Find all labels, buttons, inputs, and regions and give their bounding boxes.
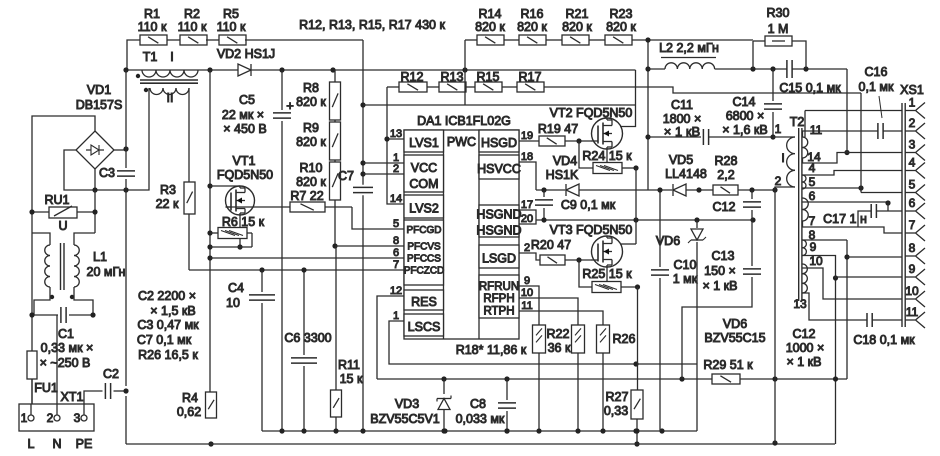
svg-text:FU1: FU1 [34,381,58,395]
svg-text:C17 1 н: C17 1 н [823,212,867,226]
svg-text:C12: C12 [713,200,736,214]
svg-text:BZV55C5V1: BZV55C5V1 [370,412,440,426]
svg-text:× 1,6 кВ: × 1,6 кВ [722,123,767,137]
svg-text:+: + [286,98,294,113]
svg-text:C9 0,1 мк: C9 0,1 мк [561,198,616,212]
svg-text:C3: C3 [99,166,115,180]
svg-text:R1: R1 [144,7,160,21]
svg-text:12: 12 [390,285,402,297]
svg-text:18: 18 [521,151,533,163]
svg-text:C1: C1 [58,327,74,341]
svg-text:R20 47: R20 47 [531,238,571,252]
svg-text:R27: R27 [606,390,629,404]
svg-text:5: 5 [809,175,816,189]
svg-text:R7 22: R7 22 [290,189,323,203]
svg-text:9: 9 [810,240,817,254]
svg-text:R14: R14 [479,7,502,21]
svg-text:T1: T1 [143,50,158,64]
svg-text:R3: R3 [160,183,176,197]
svg-text:I: I [170,50,173,64]
svg-text:2,2: 2,2 [717,168,734,182]
svg-text:20 мГн: 20 мГн [87,265,126,279]
svg-text:2: 2 [393,163,399,175]
svg-text:4: 4 [909,156,916,170]
svg-text:R16: R16 [521,7,544,21]
svg-text:1: 1 [909,96,916,110]
svg-text:R17: R17 [519,70,542,84]
svg-text:C15 0,1 мк: C15 0,1 мк [779,81,841,95]
svg-text:HSGND: HSGND [476,208,521,222]
svg-text:R24 15 к: R24 15 к [582,149,632,163]
svg-text:PWC: PWC [447,135,476,149]
svg-text:LSCS: LSCS [408,320,441,334]
svg-text:HSGD: HSGD [481,136,517,150]
svg-text:R30: R30 [767,6,790,20]
svg-text:0,62: 0,62 [177,405,201,419]
svg-text:C14: C14 [733,95,756,109]
svg-text:R11: R11 [338,358,360,372]
svg-text:R25 15 к: R25 15 к [582,267,632,281]
svg-text:C2: C2 [103,367,119,381]
svg-text:COM: COM [409,177,438,191]
svg-text:19: 19 [521,130,533,142]
svg-text:11: 11 [810,123,823,137]
svg-text:VCC: VCC [411,161,437,175]
svg-text:7: 7 [393,259,399,271]
svg-text:15 к: 15 к [340,372,363,386]
svg-text:C8: C8 [470,397,486,411]
svg-text:C6 3300: C6 3300 [284,331,331,345]
svg-text:II: II [167,91,174,105]
svg-text:C7 0,1 мк: C7 0,1 мк [137,333,192,347]
svg-text:C13: C13 [712,249,735,263]
svg-text:13: 13 [390,128,402,140]
svg-text:1: 1 [393,310,399,322]
svg-text:110 к: 110 к [138,20,167,34]
svg-text:10: 10 [905,284,919,298]
svg-text:820 к: 820 к [562,20,592,34]
svg-text:C10: C10 [674,258,697,272]
svg-text:820 к: 820 к [606,20,636,34]
svg-text:5: 5 [909,178,916,192]
svg-text:VD2 HS1J: VD2 HS1J [217,47,275,61]
svg-text:0,1 мк: 0,1 мк [859,80,894,94]
svg-text:2: 2 [909,116,916,130]
svg-text:7: 7 [909,218,916,232]
svg-text:6: 6 [909,196,916,210]
svg-text:PFCVS: PFCVS [407,242,441,253]
svg-text:R4: R4 [182,391,198,405]
svg-text:PFCGD: PFCGD [407,225,442,236]
svg-text:VT1: VT1 [233,154,256,168]
svg-text:2: 2 [524,242,530,254]
svg-text:HS1K: HS1K [546,168,579,182]
svg-text:C2 2200 ×: C2 2200 × [138,289,196,303]
svg-text:110 к: 110 к [178,20,207,34]
svg-text:C16: C16 [865,65,888,79]
svg-text:8: 8 [909,241,916,255]
svg-text:L1: L1 [93,250,107,264]
svg-text:VT2 FQD5N50: VT2 FQD5N50 [550,106,633,120]
svg-text:2: 2 [775,174,782,188]
svg-text:820 к: 820 к [296,175,326,189]
svg-text:R15: R15 [477,70,500,84]
svg-text:VD3: VD3 [395,397,419,411]
svg-text:2: 2 [47,411,54,425]
svg-text:LVS1: LVS1 [409,136,439,150]
svg-text:0,33 мк ×: 0,33 мк × [41,341,94,355]
svg-text:6800 ×: 6800 × [726,109,765,123]
svg-text:FQD5N50: FQD5N50 [217,168,273,182]
svg-text:1000 ×: 1000 × [786,341,825,355]
svg-text:0,033 мк: 0,033 мк [456,412,505,426]
svg-text:R2: R2 [184,7,200,21]
svg-text:22 к: 22 к [156,197,179,211]
svg-text:LSGD: LSGD [482,252,516,266]
svg-text:6: 6 [809,189,816,203]
svg-text:5: 5 [393,218,399,230]
svg-text:17: 17 [521,199,533,211]
svg-text:R8: R8 [303,81,319,95]
svg-text:R28: R28 [715,154,738,168]
svg-text:0,33: 0,33 [604,404,628,418]
svg-text:7: 7 [809,214,816,228]
svg-text:PFCZCD: PFCZCD [404,266,445,277]
svg-text:R21: R21 [566,7,589,21]
svg-text:R6 15 к: R6 15 к [222,215,265,229]
svg-text:VD6: VD6 [723,317,747,331]
svg-text:11: 11 [906,305,919,319]
svg-text:22 мк ×: 22 мк × [222,108,264,122]
svg-text:× 1 кВ: × 1 кВ [702,279,737,293]
svg-text:N: N [52,437,61,451]
svg-text:R26: R26 [613,332,636,346]
svg-text:× 1 кВ: × 1 кВ [664,124,700,139]
svg-text:R19 47: R19 47 [538,122,578,136]
svg-text:RTPH: RTPH [483,306,514,318]
svg-text:C7: C7 [338,169,354,183]
svg-text:RU1: RU1 [44,193,69,207]
svg-text:3: 3 [74,411,81,425]
svg-text:6: 6 [393,247,399,259]
svg-text:11: 11 [521,300,532,312]
svg-text:R9: R9 [303,121,319,135]
svg-text:PFCCS: PFCCS [407,254,441,265]
svg-text:R12: R12 [401,70,424,84]
svg-text:10: 10 [521,287,533,299]
svg-text:VT3 FQD5N50: VT3 FQD5N50 [550,223,633,237]
svg-text:820 к: 820 к [517,20,547,34]
svg-text:HSGND: HSGND [476,224,521,238]
svg-text:C5: C5 [239,93,255,107]
svg-text:U: U [58,219,67,233]
svg-text:R5: R5 [223,7,239,21]
svg-text:I: I [781,151,784,165]
svg-text:1 мк: 1 мк [673,272,698,286]
svg-text:BZV55C15: BZV55C15 [704,331,765,345]
svg-text:R22: R22 [547,327,570,341]
svg-text:36 к: 36 к [548,341,571,355]
svg-text:× 1 кВ: × 1 кВ [786,355,821,369]
svg-text:R12, R13, R15, R17 430 к: R12, R13, R15, R17 430 к [299,18,445,32]
svg-text:L: L [28,437,35,451]
svg-text:C12: C12 [793,327,816,341]
svg-text:14: 14 [390,193,402,205]
svg-text:VD4: VD4 [553,154,577,168]
svg-text:VD5: VD5 [669,153,693,167]
svg-text:9: 9 [524,275,530,287]
svg-text:9: 9 [909,262,916,276]
svg-text:C3 0,47 мк: C3 0,47 мк [137,318,199,332]
svg-text:RES: RES [411,295,437,309]
svg-text:RFPH: RFPH [483,293,514,305]
svg-text:XT1: XT1 [61,390,84,404]
svg-text:110 к: 110 к [217,20,246,34]
svg-text:L2 2,2 мГн: L2 2,2 мГн [659,41,719,55]
svg-text:HSVCC: HSVCC [477,162,521,176]
svg-text:R18* 11,86 к: R18* 11,86 к [456,343,527,357]
svg-text:× ~250 В: × ~250 В [40,356,91,370]
svg-text:C11: C11 [671,98,693,112]
svg-text:150 ×: 150 × [704,264,736,278]
svg-text:8: 8 [393,235,399,247]
svg-text:R29 51 к: R29 51 к [703,358,753,372]
svg-text:3: 3 [909,138,916,152]
svg-text:820 к: 820 к [296,95,326,109]
svg-text:1: 1 [21,411,28,425]
svg-text:13: 13 [793,297,807,311]
svg-text:LL4148: LL4148 [665,167,707,181]
svg-text:PE: PE [76,437,93,451]
svg-text:VD1: VD1 [87,83,111,97]
svg-text:RFRUN: RFRUN [479,281,519,293]
svg-text:1: 1 [775,122,782,136]
svg-text:10: 10 [226,296,240,310]
svg-text:DA1 ICB1FL02G: DA1 ICB1FL02G [417,114,511,128]
svg-text:C4: C4 [228,281,244,295]
svg-text:20: 20 [521,213,533,225]
svg-text:1 М: 1 М [768,22,789,36]
svg-text:DB157S: DB157S [76,98,123,112]
svg-text:R13: R13 [441,70,464,84]
svg-text:820 к: 820 к [296,135,326,149]
svg-text:R10: R10 [300,161,323,175]
svg-text:LVS2: LVS2 [409,202,439,216]
svg-text:R26 16,5 к: R26 16,5 к [138,348,198,362]
svg-text:× 450 В: × 450 В [223,122,266,136]
svg-text:R23: R23 [610,7,633,21]
svg-text:T2: T2 [790,115,805,129]
svg-text:× 1,5 кВ: × 1,5 кВ [150,304,195,318]
svg-text:C18 0,1 мк: C18 0,1 мк [853,333,915,347]
svg-text:820 к: 820 к [475,20,505,34]
